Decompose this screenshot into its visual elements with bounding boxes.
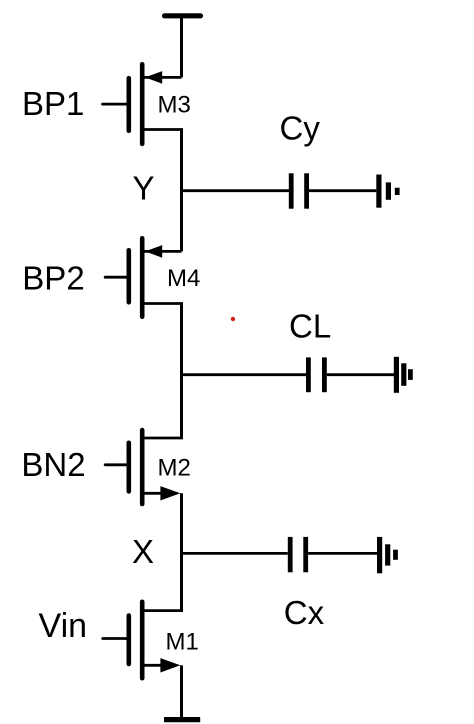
wire VDD to M3 source <box>180 16 183 78</box>
capacitor Cy <box>291 173 306 208</box>
svg-text:BN2: BN2 <box>21 446 85 483</box>
svg-text:Cx: Cx <box>284 594 325 631</box>
svg-text:M4: M4 <box>167 265 200 292</box>
svg-text:M2: M2 <box>158 455 191 482</box>
svg-text:Cy: Cy <box>280 110 321 147</box>
wire node Y to Cy <box>182 189 290 192</box>
svg-text:BP1: BP1 <box>22 85 84 122</box>
svg-text:BP2: BP2 <box>22 260 84 297</box>
svg-text:Y: Y <box>133 170 155 207</box>
svg-text:M1: M1 <box>166 628 199 655</box>
capacitor Cx <box>290 537 306 572</box>
wire CL to ground <box>327 373 394 376</box>
wire M1 source to ground <box>180 665 183 719</box>
svg-text:X: X <box>132 533 154 570</box>
svg-text:CL: CL <box>289 308 331 345</box>
transistor M2 <box>105 430 183 504</box>
stray red dot <box>231 317 235 321</box>
ground (Cy) <box>379 175 397 208</box>
wire Cx to ground <box>308 552 377 555</box>
wire M3 drain to M4 source (node Y rail) <box>180 130 183 252</box>
transistor M1 <box>103 602 183 678</box>
wire M2 source to M1 drain (node X rail) <box>180 493 183 610</box>
ground (CL) <box>396 357 410 393</box>
power VDD <box>165 13 201 18</box>
capacitor CL <box>308 357 324 392</box>
wire node to CL <box>182 373 307 376</box>
transistor M4 <box>105 238 183 316</box>
wire Cy to ground <box>309 189 376 192</box>
ground (Cx) <box>380 537 396 573</box>
transistor M3 <box>103 64 183 144</box>
ground (bottom) <box>164 717 200 722</box>
svg-text:M3: M3 <box>158 92 191 119</box>
wire M4 drain to M2 drain (node CL rail) <box>180 304 183 439</box>
svg-text:Vin: Vin <box>39 607 88 645</box>
wire node X to Cx <box>182 552 288 555</box>
